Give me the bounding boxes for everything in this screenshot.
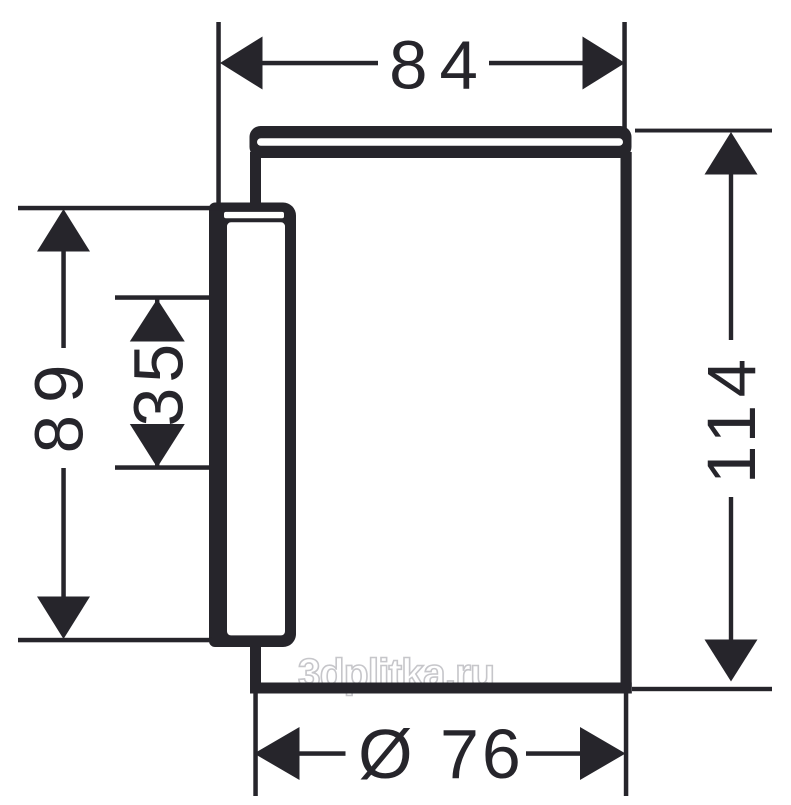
dim 35: bottom arrow bbox=[130, 424, 185, 468]
body left edge upper bbox=[250, 152, 261, 204]
dim 114: bottom arrow bbox=[705, 640, 758, 682]
dim 35: bottom extension line bbox=[115, 465, 209, 470]
svg-text:Ø 76: Ø 76 bbox=[358, 715, 524, 793]
dim 84: left extension line bbox=[216, 22, 221, 203]
dim 76: dimension line left segment bbox=[296, 751, 346, 756]
wall rail bbox=[209, 203, 296, 648]
dim 114: bottom extension line bbox=[632, 687, 772, 691]
dim 76: left arrow bbox=[254, 727, 300, 780]
dim 89: dimension line lower segment bbox=[61, 468, 66, 600]
body bottom bbox=[250, 683, 632, 694]
svg-text:84: 84 bbox=[389, 27, 490, 104]
dim 89: top arrow bbox=[37, 209, 90, 252]
dim 84: dimension line left segment bbox=[258, 61, 378, 66]
dim 35: top arrow bbox=[130, 299, 185, 342]
dim 84: dimension line right segment bbox=[489, 61, 587, 66]
dim 114: dimension line upper segment bbox=[729, 170, 733, 340]
dim 35: top extension line bbox=[115, 295, 209, 300]
dim 76: right arrow bbox=[580, 727, 626, 780]
dim 114: dimension line lower segment bbox=[729, 497, 733, 645]
dim 114: top extension line bbox=[635, 129, 772, 133]
dim 89: dimension line upper segment bbox=[61, 245, 66, 348]
svg-text:35: 35 bbox=[120, 339, 198, 427]
dim 35: bottom stub bbox=[155, 461, 159, 469]
dim 35: top stub bbox=[155, 297, 159, 305]
dim 84: right extension line bbox=[622, 22, 627, 130]
dim 84: right arrow bbox=[583, 37, 626, 90]
top plate bbox=[250, 126, 632, 158]
dim 89: bottom extension line bbox=[18, 638, 212, 643]
svg-text:114: 114 bbox=[693, 352, 770, 485]
body left edge lower bbox=[250, 645, 261, 693]
dim 84: left arrow bbox=[220, 37, 263, 90]
svg-text:89: 89 bbox=[21, 353, 98, 454]
dim 114: top arrow bbox=[705, 132, 758, 175]
dim 89: top extension line bbox=[18, 206, 222, 211]
body right edge bbox=[621, 152, 632, 694]
dim 76: dimension line right segment bbox=[526, 751, 582, 756]
dim 76: left extension line bbox=[253, 693, 257, 796]
dim 76: right extension line bbox=[624, 693, 629, 796]
dim 89: bottom arrow bbox=[37, 597, 90, 640]
